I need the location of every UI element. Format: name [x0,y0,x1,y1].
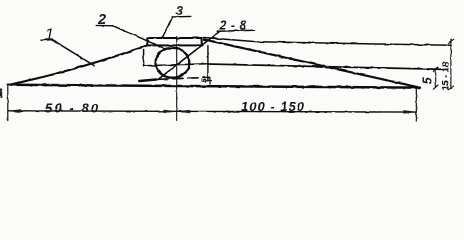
foot of label 1 [41,39,53,42]
underline of label 2 [96,24,113,26]
tick top of 5 [433,67,438,71]
arrowhead left (50-80) [9,110,21,113]
svg-text:2: 2 [97,12,106,28]
left step vertical [143,50,145,66]
dim line 5 (right, vertical) [435,69,437,87]
right extension line [415,88,417,121]
tick bottom of 5 [433,85,438,89]
arrowhead center-right (100-150) [178,110,190,113]
pipe / vine bundle (circle) [156,48,190,78]
svg-text:50 - 80: 50 - 80 [45,101,100,116]
leader of label 2 [113,26,165,49]
underline of label 3 [172,15,191,18]
underline of label 2-8 [217,30,255,31]
svg-text:1: 1 [45,27,54,44]
bench line (settled mound level) [208,64,446,69]
left slope of mound [9,45,148,85]
leader of label 3 [162,17,172,38]
small dim bottom tick [205,80,212,82]
furrow right wall [209,77,211,84]
arrowhead center-left (50-80) [164,110,176,113]
arrowhead right (100-150) [404,110,416,113]
protective plate (3) [147,38,201,45]
furrow bottom dashed part [158,77,210,79]
left extension line [7,86,9,121]
tick top of 15-18 [449,39,454,43]
bottom dimension line [8,111,416,112]
furrow bottom (dashed, thick left end) [140,80,157,82]
top extension line from plate level [204,38,452,46]
horizontal level line through circle [144,64,208,66]
svg-text:15 - 18: 15 - 18 [441,61,451,91]
step edge right of plate + small dim line [207,45,209,80]
tick bottom of 15-18 [449,86,454,90]
right slope of mound [204,39,420,87]
left page-edge smudge [0,89,2,99]
centerline extension [176,36,178,121]
ground line [8,85,419,88]
svg-text:2 - 8: 2 - 8 [219,18,248,32]
svg-text:3: 3 [176,3,184,18]
svg-text:5: 5 [421,76,435,84]
svg-text:5: 5 [201,79,208,83]
dim line 15-18 (right, vertical) [450,39,452,89]
svg-text:100 - 150: 100 - 150 [241,99,305,114]
leader of label 1 [53,40,94,65]
leader of label 2-8 through circle [158,32,220,80]
